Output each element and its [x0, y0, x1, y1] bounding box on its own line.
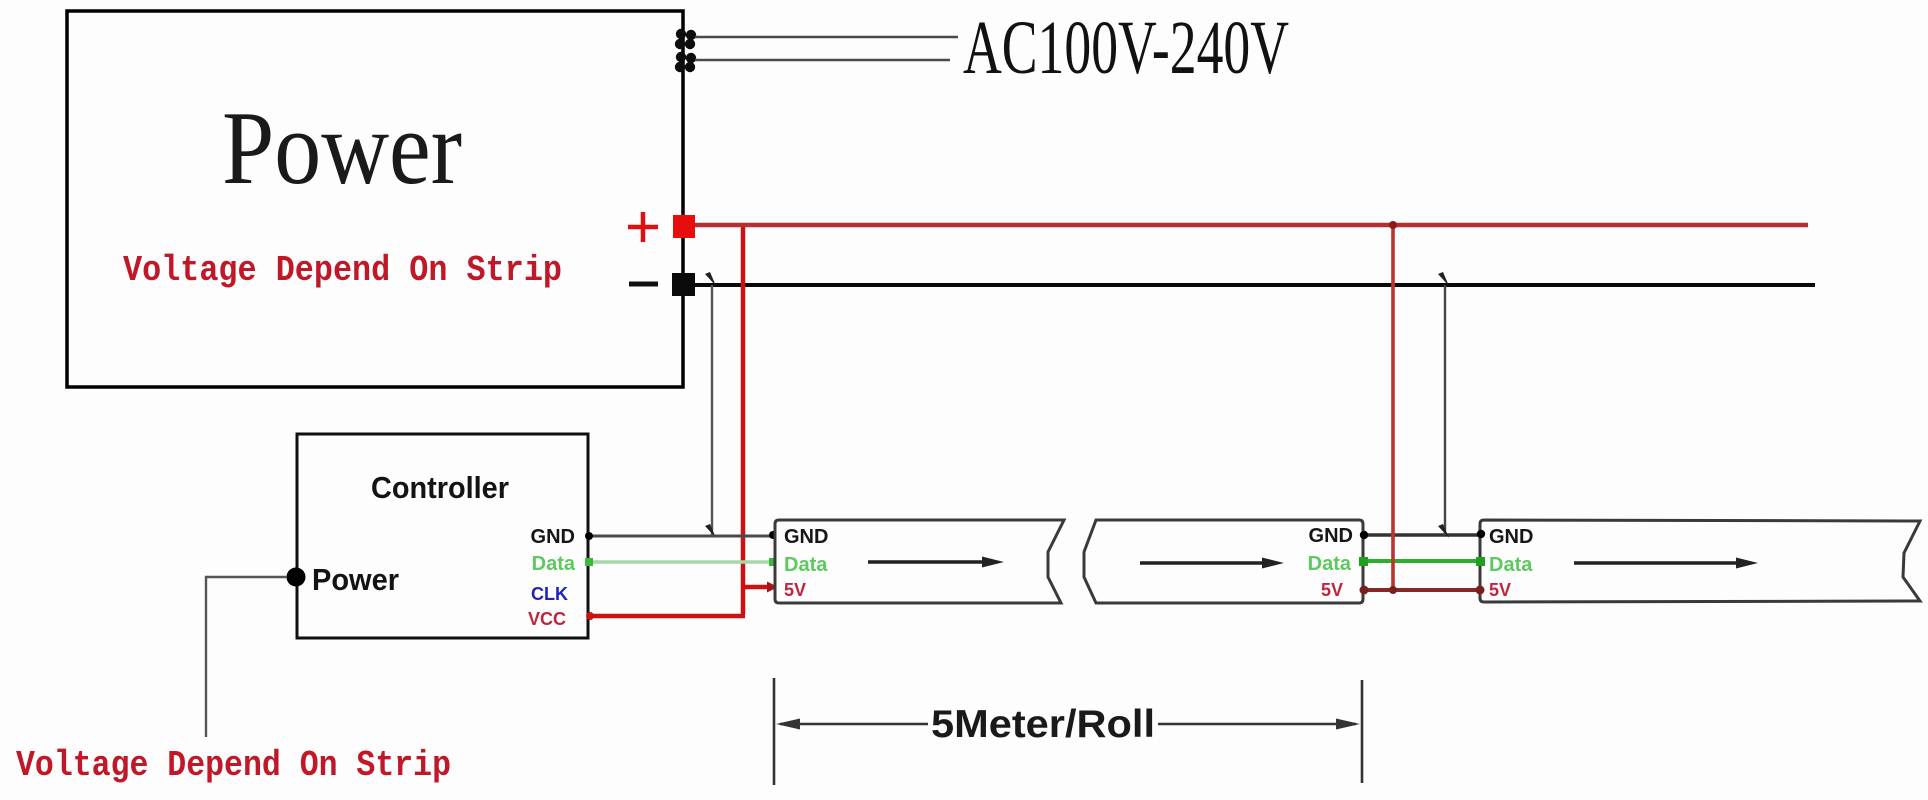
- wire controller VCC (red): [589, 614, 745, 619]
- junction arrow at GND bus: [705, 272, 716, 286]
- minus terminal pad (black square): [672, 273, 695, 296]
- junction dot strip2 5V: [1360, 586, 1369, 595]
- junction dot red drop at V+ bus: [1389, 221, 1397, 229]
- arrowhead at strip1 5V pin: [767, 582, 778, 593]
- svg-text:Power: Power: [312, 562, 399, 597]
- svg-text:Data: Data: [1489, 554, 1533, 576]
- junction arrow at GND bus (drop 2): [1438, 272, 1449, 286]
- strip 3 body: [1480, 520, 1920, 602]
- svg-text:GND: GND: [1489, 526, 1533, 548]
- svg-text:Data: Data: [1308, 553, 1352, 575]
- power supply box: [67, 11, 683, 387]
- svg-text:GND: GND: [1309, 525, 1353, 547]
- wire controller Data to strip1 (light green): [590, 560, 772, 564]
- svg-text:Data: Data: [532, 553, 576, 575]
- pad strip2 Data pin: [1359, 557, 1368, 566]
- wire strip2 Data to strip3 Data (green): [1363, 559, 1480, 563]
- junction dot strip3 GND: [1477, 530, 1485, 538]
- strip 2 body: [1084, 520, 1363, 603]
- strip2 direction arrow: [1140, 561, 1268, 565]
- plus terminal pad (red square): [673, 215, 695, 238]
- junction dot strip2 GND: [1360, 531, 1368, 539]
- svg-text:GND: GND: [784, 526, 828, 548]
- wire strip2 5V to strip3 5V (dark red): [1363, 588, 1480, 592]
- wire strip2 GND to strip3 GND: [1364, 533, 1481, 537]
- junction dot controller GND pin: [585, 532, 593, 540]
- wire gray drop 2 (GND bus to strip GND wire): [1444, 285, 1446, 535]
- svg-text:Power: Power: [222, 89, 462, 206]
- junction dot strip1 GND pin: [769, 531, 777, 539]
- wire controller GND to strip1: [588, 535, 773, 538]
- pad strip1 Data pin (green): [769, 558, 777, 566]
- minus terminal symbol: [629, 282, 658, 287]
- plus terminal symbol: [628, 212, 658, 242]
- dimension tick left: [773, 678, 776, 785]
- controller box: [297, 434, 588, 638]
- strip3 direction arrow: [1574, 561, 1744, 565]
- pad strip3 Data pin: [1476, 557, 1485, 566]
- svg-text:5V: 5V: [1489, 580, 1511, 600]
- svg-text:Voltage Depend On Strip: Voltage Depend On Strip: [123, 250, 562, 291]
- svg-text:5Meter/Roll: 5Meter/Roll: [931, 703, 1155, 746]
- AC input terminal dots (line 2): [675, 52, 696, 72]
- junction dot VCC pin: [586, 612, 594, 620]
- pad controller Data pin (green): [585, 558, 593, 566]
- wire controller power lead: [206, 577, 287, 737]
- junction dot strip3 5V: [1476, 586, 1485, 595]
- wire GND bus (black): [695, 283, 1815, 287]
- svg-text:5V: 5V: [1321, 580, 1343, 600]
- controller power input dot: [287, 568, 306, 587]
- dimension tick right: [1361, 680, 1364, 783]
- wire AC line 1: [695, 36, 958, 39]
- dimension line left segment with arrow: [780, 723, 928, 726]
- svg-text:CLK: CLK: [531, 584, 568, 604]
- svg-text:AC100V-240V: AC100V-240V: [963, 6, 1289, 90]
- wire gray drop 1 (GND bus to strip1 GND): [711, 285, 713, 535]
- wire AC line 2: [695, 59, 950, 62]
- wire 5V branch to strip1: [741, 585, 768, 590]
- wire V+ bus (red, top): [695, 223, 1808, 228]
- svg-text:Controller: Controller: [371, 470, 509, 505]
- svg-text:VCC: VCC: [528, 609, 566, 629]
- junction dot red drop at 5V wire: [1389, 586, 1397, 594]
- AC input terminal dots (line 1): [675, 29, 696, 49]
- junction arrow at strip GND wire (drop 2): [1438, 524, 1449, 538]
- wire red drop 2 (V+ bus to 5V wire): [1391, 227, 1395, 590]
- svg-text:GND: GND: [531, 526, 575, 548]
- dimension line right segment with arrow: [1158, 723, 1356, 726]
- wire red drop 1 (V+ bus to VCC/5V): [741, 227, 746, 614]
- svg-text:Voltage Depend On Strip: Voltage Depend On Strip: [16, 745, 451, 786]
- svg-text:Data: Data: [784, 554, 828, 576]
- strip1 direction arrow: [868, 560, 990, 564]
- svg-text:5V: 5V: [784, 580, 806, 600]
- junction arrow at strip1 GND wire: [705, 524, 716, 538]
- strip 1 body: [775, 520, 1064, 603]
